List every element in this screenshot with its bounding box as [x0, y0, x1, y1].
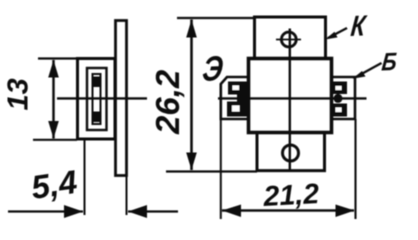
- top mounting tab: [255, 17, 326, 59]
- svg-text:21,2: 21,2: [262, 178, 320, 213]
- label Б pointer arrowhead: [353, 71, 366, 79]
- dim 26,2 dimension line: [190, 20, 193, 171]
- dim 13 top extension line: [38, 57, 77, 59]
- bottom mounting tab: [257, 133, 325, 171]
- top hole horizontal crosshair tick: [276, 39, 301, 41]
- bottom mounting hole circle: [283, 145, 299, 161]
- flange plate side view: [116, 21, 127, 176]
- dim 13 bottom extension line: [33, 139, 77, 141]
- left pin 2 hole: [232, 106, 240, 112]
- dim 5,4 left extension line: [84, 140, 86, 215]
- dim 5,4 right arrowhead pointing left: [128, 205, 147, 218]
- dim 26,2 arrowhead down: [186, 153, 197, 171]
- dim 26,2 bottom extension line: [166, 170, 257, 172]
- main body rect front view: [249, 59, 332, 133]
- svg-text:5,4: 5,4: [29, 163, 80, 206]
- right pin 2 hole: [336, 108, 342, 113]
- left pin 1 hole: [233, 86, 240, 91]
- dim 21,2 right extension line: [354, 119, 356, 219]
- svg-text:К: К: [349, 9, 368, 43]
- dim 13 arrowhead up: [48, 60, 59, 78]
- left pin 1: [228, 82, 249, 95]
- dim 21,2 left extension line: [220, 119, 222, 219]
- right pin 2: [332, 104, 347, 117]
- svg-text:13: 13: [3, 78, 35, 110]
- top mounting hole circle: [281, 32, 296, 47]
- right weld dot on centerline: [334, 94, 343, 103]
- right lead bracket (base side): [332, 77, 356, 119]
- dim 13 arrowhead down: [48, 121, 59, 139]
- label Б pointer line: [356, 63, 382, 77]
- dim 5,4 left arrowhead pointing right: [64, 205, 83, 218]
- label К pointer line: [328, 28, 347, 38]
- svg-text:26,2: 26,2: [149, 69, 186, 135]
- cap body inner rect side view: [93, 74, 101, 124]
- right pin 1: [332, 82, 347, 95]
- dim 5,4 right extension line: [126, 176, 128, 215]
- cap body mid rect side view: [87, 68, 107, 130]
- left junction blob on centerline: [237, 93, 250, 104]
- dim 5,4 left tail line: [8, 210, 83, 212]
- dim 26,2 top extension line: [177, 17, 254, 19]
- svg-text:Б: Б: [380, 47, 398, 76]
- left pin 2: [227, 102, 249, 117]
- dim 21,2 dimension line: [222, 209, 354, 212]
- label К pointer arrowhead: [325, 32, 338, 40]
- dim 21,2 right arrowhead: [336, 205, 355, 218]
- inner crimp fill top: [93, 77, 101, 88]
- right pin 1 hole: [336, 86, 342, 90]
- inner crimp fill bottom: [93, 112, 101, 123]
- dim 5,4 right tail line: [128, 210, 178, 212]
- front view vertical centerline: [289, 29, 291, 171]
- cap body outer rect side view: [78, 59, 116, 140]
- dim 21,2 left arrowhead: [222, 205, 241, 218]
- dim 13 dimension line: [52, 60, 55, 139]
- front view horizontal centerline: [218, 97, 367, 99]
- dim 26,2 arrowhead up: [186, 20, 197, 38]
- side view horizontal centerline: [57, 97, 147, 99]
- left lead bracket (emitter side): [221, 77, 247, 119]
